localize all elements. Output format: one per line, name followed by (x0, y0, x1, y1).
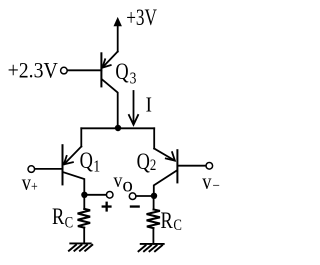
transistor Q3 emitter wire (103, 52, 118, 68)
wire resistor to ground left (83, 228, 85, 244)
transistor Q2 emitter arrow (166, 152, 175, 160)
label + output polarity (102, 202, 112, 212)
transistor Q1 collector wire (63, 172, 84, 195)
wire Q2 collector to resistor (153, 196, 155, 210)
wire common emitter rail (81, 127, 154, 129)
svg-text:+3V: +3V (126, 6, 157, 31)
svg-text:v: v (114, 170, 123, 193)
terminal v+ (28, 166, 35, 173)
transistor Q3 emitter arrow (102, 59, 110, 67)
wire Q2 base (177, 165, 205, 167)
node common emitter junction (115, 125, 121, 131)
current I arrow (133, 91, 135, 124)
supply arrowhead (114, 17, 122, 26)
wire +3V supply line (117, 26, 119, 52)
transistor Q1 base bar (62, 145, 64, 184)
transistor Q1 emitter wire (64, 147, 81, 165)
wire vo- output (136, 195, 154, 197)
label - output polarity (130, 205, 140, 207)
ground left (69, 243, 92, 250)
svg-text:o: o (122, 173, 132, 197)
svg-text:+2.3V: +2.3V (8, 57, 58, 82)
wire vo+ output (84, 194, 106, 196)
transistor Q2 emitter wire (154, 149, 174, 161)
transistor Q3 base bar (100, 53, 102, 86)
wire resistor to ground right (152, 228, 154, 244)
resistor RC right zigzag (147, 210, 160, 229)
wire left rail drop (80, 128, 82, 146)
wire Q1 collector to resistor (83, 195, 85, 209)
wire Q1 base (35, 168, 63, 170)
terminal vo- (129, 193, 136, 200)
resistor RC left zigzag (78, 209, 91, 228)
transistor Q1 emitter arrow (64, 156, 73, 164)
svg-text:I: I (146, 94, 152, 117)
wire right rail drop (153, 128, 155, 148)
terminal v- (206, 163, 213, 170)
node Q2 collector (151, 193, 157, 199)
ground right (139, 244, 164, 251)
node Q1 collector (81, 192, 87, 198)
wire Q3 base (68, 69, 102, 71)
transistor Q2 collector wire (154, 171, 177, 196)
terminal vo+ (106, 192, 113, 199)
transistor Q3 collector wire (102, 79, 118, 128)
transistor Q2 base bar (176, 150, 178, 182)
terminal +2.3V (61, 67, 68, 74)
